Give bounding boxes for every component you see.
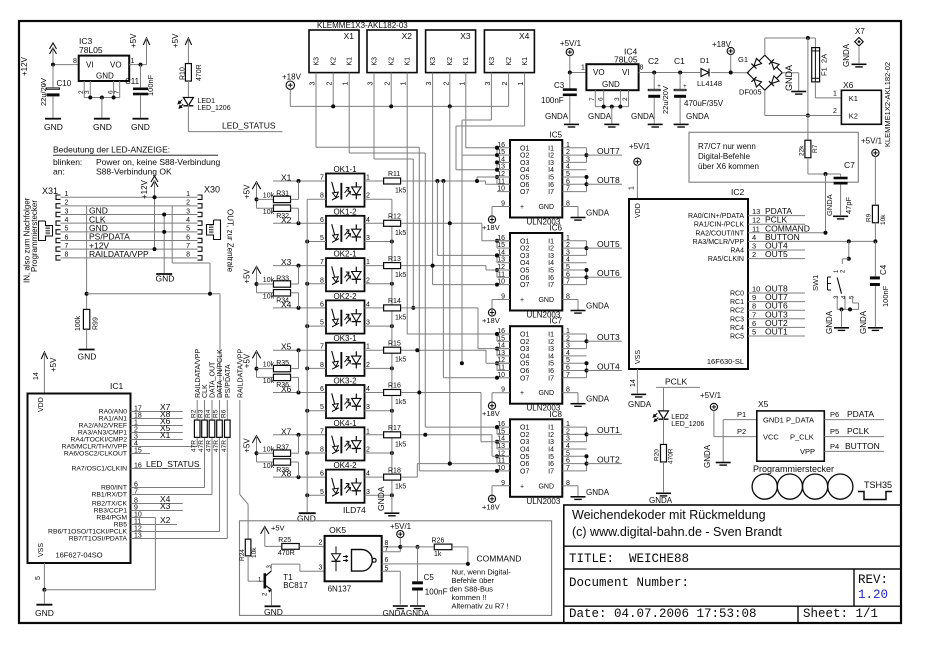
ground GNDA under IC4	[588, 112, 619, 127]
resistor R34 10k	[257, 290, 299, 308]
wire LED2 to R20	[663, 418, 665, 444]
svg-text:OUT6: OUT6	[597, 268, 620, 278]
+5V/1 supply OK5	[390, 522, 412, 547]
connector X30 label	[204, 185, 220, 195]
wire X7 net	[273, 434, 326, 436]
IC1 box 16F627	[28, 381, 131, 563]
svg-text:5: 5	[35, 576, 42, 580]
svg-text:RB1/RX/DT: RB1/RX/DT	[91, 492, 127, 499]
terminal X4 pin 1 stub	[518, 73, 525, 86]
wire OK4-2 cathode to GND bus	[307, 494, 326, 496]
svg-text:+: +	[683, 84, 687, 90]
terminal block X1	[309, 30, 359, 73]
svg-text:I4: I4	[548, 167, 554, 174]
wire R24 to T1 base	[248, 556, 264, 581]
connector X31 label	[42, 186, 58, 196]
wire R14 to IC7	[401, 308, 510, 349]
terminal X6 KLEMME1X2	[841, 80, 881, 124]
svg-text:2: 2	[566, 242, 570, 249]
net label X5 at IC1	[160, 423, 171, 433]
svg-text:R38: R38	[276, 467, 289, 474]
node X7 junction	[297, 433, 301, 437]
svg-text:4: 4	[566, 257, 570, 264]
svg-text:1: 1	[366, 175, 370, 182]
OK5 NAND gate	[352, 550, 377, 572]
svg-text:GNDA: GNDA	[383, 609, 407, 618]
svg-text:O1: O1	[520, 238, 529, 245]
net label OUT7	[587, 146, 623, 156]
svg-text:Sheet: 1/1: Sheet: 1/1	[803, 607, 878, 621]
svg-text:K2: K2	[506, 57, 513, 66]
node BUTTON SW1	[847, 239, 851, 243]
svg-text:3: 3	[186, 208, 190, 215]
svg-text:1k5: 1k5	[395, 314, 406, 321]
wire T1 emitter to GND	[271, 590, 273, 606]
svg-text:GND: GND	[538, 390, 554, 397]
LED LED1 LED_1206	[178, 98, 231, 113]
wire R16 to IC8	[401, 391, 510, 442]
wire OK3-1 cathode to GND bus	[307, 367, 326, 369]
svg-text:K1: K1	[347, 57, 354, 66]
svg-text:I4: I4	[548, 260, 554, 267]
svg-text:X3: X3	[160, 501, 171, 511]
svg-text:RA4: RA4	[730, 248, 744, 255]
node COMMAND OK5	[466, 562, 470, 566]
wire OK3-2 collector	[365, 392, 384, 394]
svg-text:15: 15	[497, 428, 505, 435]
node emitter bus OK4-1	[390, 451, 394, 455]
svg-text:R11: R11	[388, 171, 400, 178]
svg-text:7: 7	[385, 546, 389, 553]
svg-text:DATA_OUT: DATA_OUT	[210, 361, 217, 398]
svg-text:2: 2	[443, 82, 450, 86]
svg-text:O5: O5	[520, 454, 529, 461]
svg-text:C5: C5	[424, 573, 435, 582]
svg-text:LED_1206: LED_1206	[198, 105, 231, 112]
svg-text:X5: X5	[281, 342, 292, 352]
svg-text:OK1-1: OK1-1	[333, 165, 357, 174]
svg-text:100nF: 100nF	[881, 285, 890, 307]
svg-text:1: 1	[566, 142, 570, 149]
ground GND under C11	[131, 119, 150, 132]
node emitter bus OK3-1	[390, 366, 394, 370]
node X5 junction	[297, 348, 301, 352]
wire IC1 RB3 net X3	[131, 510, 183, 512]
svg-text:F1 2A: F1 2A	[820, 54, 829, 76]
IC4 pin8 label	[640, 65, 644, 72]
svg-text:O4: O4	[520, 447, 529, 454]
svg-text:TSH35: TSH35	[864, 480, 892, 490]
svg-text:6: 6	[566, 178, 570, 185]
net label PCLK	[765, 215, 788, 225]
svg-text:1k5: 1k5	[395, 484, 406, 491]
wire OK2-1 emitter	[365, 283, 392, 285]
IC4 bottom pins	[589, 90, 629, 106]
net label DATA_IN/PCLK column	[217, 349, 224, 398]
IC2 box 16F630	[629, 187, 748, 369]
net label +12V row7	[89, 240, 109, 250]
svg-text:10k: 10k	[263, 463, 275, 470]
svg-text:R3: R3	[198, 409, 205, 418]
node +12V/C10 junction	[51, 63, 55, 67]
ground GNDA under X7	[842, 43, 867, 67]
wire OK1-2 emitter	[365, 241, 392, 243]
emitter bus vertical	[391, 199, 393, 512]
net label OUT5	[587, 239, 623, 249]
IC8 GND pin to GNDA	[562, 486, 578, 497]
wire OK4-2 emitter	[365, 494, 392, 496]
svg-text:1: 1	[566, 235, 570, 242]
IC1 RB pin numbers	[134, 482, 142, 540]
resistor R12 1k5	[384, 214, 407, 237]
wire IC1 RB0 to CLK column	[131, 437, 205, 487]
resistor R10 470R	[179, 64, 203, 82]
IC2 RA pin names	[688, 213, 745, 263]
+18V supply at D1	[712, 40, 734, 75]
optocoupler OK1-1	[326, 174, 365, 207]
svg-text:6: 6	[320, 301, 324, 308]
wire IC1 pin16 LED_STATUS	[131, 468, 201, 470]
svg-text:I7: I7	[548, 375, 554, 382]
svg-text:K1: K1	[522, 57, 529, 66]
wire X1-K3 descent	[316, 80, 499, 473]
svg-text:5: 5	[566, 450, 570, 457]
OK5 LED symbol	[332, 546, 348, 571]
svg-text:K2: K2	[447, 57, 454, 66]
IC5 right pins	[562, 142, 586, 208]
svg-text:47pF: 47pF	[844, 196, 853, 214]
wire OK1-2 collector	[365, 222, 384, 224]
svg-text:R36: R36	[276, 382, 289, 389]
IC5 pin pair stubs	[495, 146, 499, 185]
svg-text:3: 3	[566, 343, 570, 350]
net label X6 ladder	[281, 384, 292, 394]
optocoupler OK1-2	[326, 216, 365, 249]
IC7 left pins	[497, 328, 510, 394]
svg-text:2: 2	[366, 277, 370, 284]
resistor R3 47R	[198, 409, 208, 452]
svg-text:11: 11	[498, 271, 505, 278]
label ILD74	[343, 505, 366, 515]
svg-text:GND: GND	[602, 80, 620, 89]
bridge diode top-left	[751, 58, 761, 68]
node R7/C7 to COMMAND	[824, 172, 828, 176]
svg-text:3: 3	[84, 90, 91, 94]
svg-text:1: 1	[581, 65, 585, 72]
svg-text:1: 1	[566, 421, 570, 428]
svg-text:10k: 10k	[880, 214, 887, 225]
resistor R35 10k	[257, 350, 299, 372]
wire IC1 pin15 stub	[131, 453, 151, 455]
wire R7 to C7 node	[808, 158, 841, 174]
svg-text:1.20: 1.20	[858, 588, 888, 602]
svg-text:5: 5	[566, 264, 570, 271]
net label BUTTON	[765, 232, 800, 242]
svg-text:R7/C7 nur wenn: R7/C7 nur wenn	[698, 142, 756, 151]
svg-text:X3: X3	[281, 257, 292, 267]
label OK1-2	[333, 207, 357, 216]
wire T1 collector to OK5 pin3	[271, 564, 324, 571]
node C5/R26 junction	[416, 545, 420, 549]
node GND bus OK1-2	[305, 240, 309, 244]
svg-text:R33: R33	[276, 275, 289, 282]
svg-text:8: 8	[320, 362, 324, 369]
svg-text:1: 1	[401, 82, 408, 86]
svg-text:8: 8	[320, 277, 324, 284]
svg-text:RA1/AN1: RA1/AN1	[99, 416, 128, 423]
optocoupler OK4-2	[326, 470, 365, 503]
IC8 pin pair stubs	[495, 425, 499, 464]
svg-text:OUT5: OUT5	[765, 249, 788, 259]
svg-text:I6: I6	[548, 368, 554, 375]
svg-text:+5V: +5V	[171, 33, 180, 48]
optocoupler OK5 6N137 box	[325, 525, 382, 594]
svg-text:RC0: RC0	[730, 291, 744, 298]
svg-text:I2: I2	[548, 153, 554, 160]
IC2 pin number 8	[752, 302, 756, 311]
svg-text:Digital-Befehle: Digital-Befehle	[698, 152, 751, 161]
pin labels OK1-2	[320, 217, 370, 242]
text OUT zur Zentrale	[226, 209, 235, 273]
svg-text:I2: I2	[548, 246, 554, 253]
svg-text:IC6: IC6	[550, 224, 563, 233]
svg-text:X6: X6	[843, 80, 854, 90]
wire X3-K3 descent	[433, 80, 499, 287]
svg-text:O6: O6	[520, 461, 529, 468]
X6 pin numbers	[833, 91, 837, 116]
terminal X3 pin 1 stub	[459, 73, 466, 86]
svg-text:3: 3	[566, 436, 570, 443]
svg-text:RB5: RB5	[114, 522, 127, 529]
svg-text:R20: R20	[654, 449, 661, 461]
IC6 GND pin to GNDA	[562, 300, 578, 311]
svg-text:+18V: +18V	[282, 72, 302, 81]
svg-text:3: 3	[426, 82, 433, 86]
optocoupler OK2-2	[326, 300, 365, 333]
svg-text:7: 7	[566, 186, 570, 193]
svg-text:R35: R35	[276, 360, 289, 367]
node X2 junction	[297, 221, 301, 225]
svg-text:O7: O7	[520, 282, 529, 289]
svg-text:+5V/1: +5V/1	[390, 522, 412, 531]
+5V arrow ladder R35	[242, 351, 260, 377]
svg-text:13: 13	[497, 350, 505, 357]
IC2 pin number 10	[752, 285, 760, 294]
wire R9 to C4	[874, 241, 876, 276]
svg-text:4: 4	[366, 217, 370, 224]
svg-text:LED_STATUS: LED_STATUS	[222, 121, 276, 131]
fuse F1 2A	[812, 38, 829, 82]
ULN2003 IC5 box	[510, 131, 563, 227]
svg-text:DATA_IN/PCLK: DATA_IN/PCLK	[217, 349, 224, 398]
+18V supply at rail	[286, 81, 294, 89]
svg-text:RB3/CCP1: RB3/CCP1	[94, 508, 127, 515]
terminal block X3	[426, 30, 476, 73]
resistor R38 10k	[257, 459, 299, 477]
svg-text:GND: GND	[44, 122, 63, 132]
label +18V at rail	[282, 72, 302, 81]
ground GNDA under SW1	[825, 310, 849, 334]
node X8 junction	[297, 475, 301, 479]
wire X2-K2 to rail	[389, 80, 393, 108]
svg-text:+5V/1: +5V/1	[861, 136, 883, 145]
svg-text:47R: 47R	[191, 440, 198, 452]
svg-text:47R: 47R	[221, 440, 228, 452]
resistor R16 1k5	[384, 383, 407, 406]
ground GNDA IC6	[571, 302, 610, 314]
IC3 regulator 78L05 box	[79, 36, 130, 81]
svg-text:16F630-SL: 16F630-SL	[707, 357, 744, 366]
IC5 output pair stubs	[585, 148, 589, 192]
svg-text:O3: O3	[520, 160, 529, 167]
wire IC2 RA4	[748, 249, 805, 251]
svg-text:R6: R6	[221, 409, 228, 418]
svg-text:Document Number:: Document Number:	[569, 576, 689, 590]
svg-text:R18: R18	[388, 467, 401, 474]
svg-text:K1: K1	[849, 94, 858, 103]
title row Date	[569, 607, 757, 621]
net label LED_STATUS	[222, 121, 276, 131]
svg-text:RB6/T1OSO/T1CKI/PCLK: RB6/T1OSO/T1CKI/PCLK	[48, 529, 127, 536]
bridge diode bottom-right	[769, 76, 779, 86]
svg-text:GNDA: GNDA	[586, 302, 610, 311]
svg-text:RC4: RC4	[730, 325, 744, 332]
wire IC2 RC0	[748, 292, 805, 294]
IC2 pin number 7	[752, 310, 756, 319]
svg-text:1k5: 1k5	[395, 399, 406, 406]
IC8 left pins	[497, 421, 510, 487]
wire R18 to IC8	[401, 462, 510, 478]
ground GNDA under C7	[833, 216, 848, 219]
net label CLK column	[202, 384, 209, 398]
wire IC2 RC5	[748, 335, 805, 337]
optocoupler OK4-1	[326, 427, 365, 460]
svg-text:10k: 10k	[263, 193, 275, 200]
svg-text:I7: I7	[548, 189, 554, 196]
svg-text:O1: O1	[520, 332, 529, 339]
svg-text:RA7/OSC1/CLKIN: RA7/OSC1/CLKIN	[71, 466, 127, 473]
svg-text:VDD: VDD	[38, 397, 45, 412]
wire X2-K3 descent	[374, 80, 415, 310]
svg-text:4: 4	[566, 164, 570, 171]
node R99 top junction	[85, 292, 89, 296]
IC7 pin pair stubs	[495, 332, 499, 371]
node COMMAND junction	[824, 231, 828, 235]
node IC4 gnd pins	[602, 105, 623, 109]
+5V/1 supply R9	[861, 136, 883, 156]
wire R13 to IC6	[401, 264, 510, 270]
net label OUT5	[765, 249, 788, 259]
svg-text:3: 3	[65, 208, 69, 215]
wire D1 to bridge	[711, 72, 749, 74]
terminal block X2	[367, 30, 417, 73]
wire F1 to X6 K1	[815, 82, 841, 98]
X30 pin numbers	[186, 191, 190, 259]
wire X5 P5 PCLK	[824, 436, 884, 438]
svg-text:470uF/35V: 470uF/35V	[684, 99, 724, 108]
wire X4-K3 descent	[462, 80, 499, 157]
svg-text:R14: R14	[388, 298, 401, 305]
wire OK4-1 cathode to GND bus	[307, 452, 326, 454]
wire IC4 VI to D1	[639, 72, 700, 74]
IC5 +18V pin9	[492, 207, 510, 217]
svg-text:OK3-2: OK3-2	[333, 377, 357, 386]
net label X2 ladder	[281, 215, 292, 225]
svg-text:VSS: VSS	[38, 543, 45, 557]
svg-text:OUT1: OUT1	[597, 425, 620, 435]
svg-text:RA6/OSC2/CLKOUT: RA6/OSC2/CLKOUT	[64, 451, 127, 458]
net label X3 ladder	[281, 257, 292, 267]
label KLEMME1X2-AKL182-02	[883, 62, 892, 147]
terminal X3 pin 3 stub	[426, 73, 433, 86]
node GND bus OK4-1	[305, 451, 309, 455]
wire OK1-1 emitter	[365, 198, 392, 200]
svg-text:OUT4: OUT4	[597, 361, 620, 371]
+5V arrow at IC3 output	[129, 33, 150, 65]
svg-text:6: 6	[566, 365, 570, 372]
IC5 GND pin to GNDA	[562, 207, 578, 218]
svg-text:LED_STATUS: LED_STATUS	[146, 459, 200, 469]
svg-text:4: 4	[65, 217, 69, 224]
svg-text:K2: K2	[389, 57, 396, 66]
wire OK1-2 cathode to GND bus	[307, 241, 326, 243]
svg-text:4: 4	[566, 443, 570, 450]
svg-text:GNDA: GNDA	[376, 486, 386, 511]
ground GND under IC3	[93, 119, 112, 132]
+5V/1 supply X5	[700, 391, 722, 411]
+18V supply IC7	[482, 402, 500, 418]
net label X4 at IC1	[160, 494, 171, 504]
svg-text:+18V: +18V	[482, 316, 500, 325]
IC4 regulator 78L05 box	[586, 47, 638, 91]
svg-text:O7: O7	[520, 189, 529, 196]
net label OUT1	[765, 327, 788, 337]
wire IC1 RA4/TOCKI/CMP2 to net X1	[131, 439, 183, 441]
ground GNDA pin5 OK5	[383, 606, 408, 618]
node +5V/R37 junction	[255, 451, 259, 455]
connector X7 GNDA diamond	[855, 27, 866, 63]
IC7 GND pin to GNDA	[562, 393, 578, 404]
svg-text:6: 6	[320, 386, 324, 393]
connector X31 plug symbol	[39, 221, 53, 241]
svg-text:Weichendekoder mit Rückmeldung: Weichendekoder mit Rückmeldung	[572, 508, 766, 522]
svg-text:OK1-2: OK1-2	[333, 207, 357, 216]
node BUTTON R9	[873, 239, 877, 243]
svg-text:4: 4	[186, 217, 190, 224]
wire X5 P6 PDATA	[824, 419, 884, 421]
pin labels OK3-1	[320, 344, 370, 369]
title row TITLE WEICHE88	[569, 552, 689, 566]
svg-text:+: +	[520, 483, 524, 490]
svg-text:GND1: GND1	[763, 415, 784, 424]
svg-text:OUT2: OUT2	[597, 454, 620, 464]
pin labels OK4-2	[320, 471, 370, 496]
svg-text:X1: X1	[160, 430, 171, 440]
net label OUT3	[587, 332, 623, 342]
svg-text:P4: P4	[830, 442, 839, 451]
svg-text:RA0/AN0: RA0/AN0	[99, 409, 128, 416]
svg-text:+5V/1: +5V/1	[560, 39, 582, 48]
wire OK1-1 collector	[365, 180, 384, 182]
ground GND under C10	[44, 119, 63, 132]
svg-text:1: 1	[366, 344, 370, 351]
node +5V/R33 junction	[255, 282, 259, 286]
node emitter bus OK2-1	[390, 282, 394, 286]
svg-text:I3: I3	[548, 160, 554, 167]
wire OK4-2 collector	[365, 476, 384, 478]
wire R26 to COMMAND	[452, 547, 468, 564]
svg-text:O2: O2	[520, 432, 529, 439]
